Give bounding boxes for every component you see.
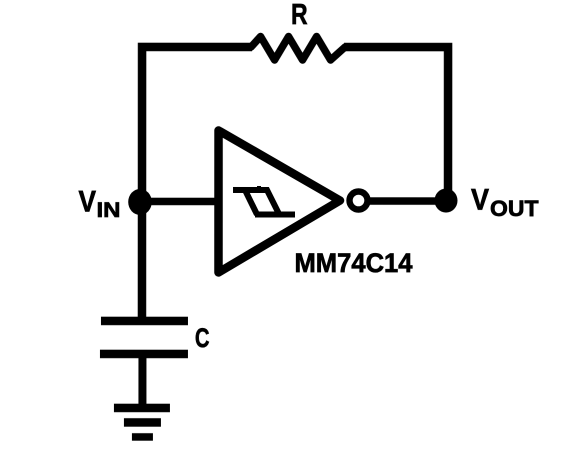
hysteresis symbol inside inverter (233, 186, 295, 215)
ground (114, 408, 170, 437)
node VIN junction dot (128, 189, 152, 215)
node VOUT junction dot (435, 189, 458, 213)
wire: left vertical from top-left corner through VIN node down to capacitor (142, 47, 252, 320)
svg-text:V: V (79, 185, 97, 218)
inverter output bubble (350, 192, 368, 210)
op-amp U1 (Schmitt-trigger inverter triangle) (218, 130, 340, 272)
svg-text:OUT: OUT (490, 196, 539, 221)
wire: bubble to VOUT node (369, 197, 447, 205)
wire: VIN node to inverter input (142, 198, 218, 206)
svg-text:V: V (471, 184, 489, 217)
svg-text:MM74C14: MM74C14 (294, 248, 412, 278)
wire: top-right segment and right vertical down to VOUT node (344, 47, 448, 201)
wire: capacitor bottom plate to ground (138, 354, 146, 408)
capacitor C top plate (101, 317, 188, 326)
capacitor C bottom plate (100, 350, 188, 359)
svg-text:C: C (195, 323, 210, 353)
resistor R (251, 36, 345, 60)
svg-text:R: R (291, 0, 308, 31)
svg-text:IN: IN (97, 199, 121, 222)
